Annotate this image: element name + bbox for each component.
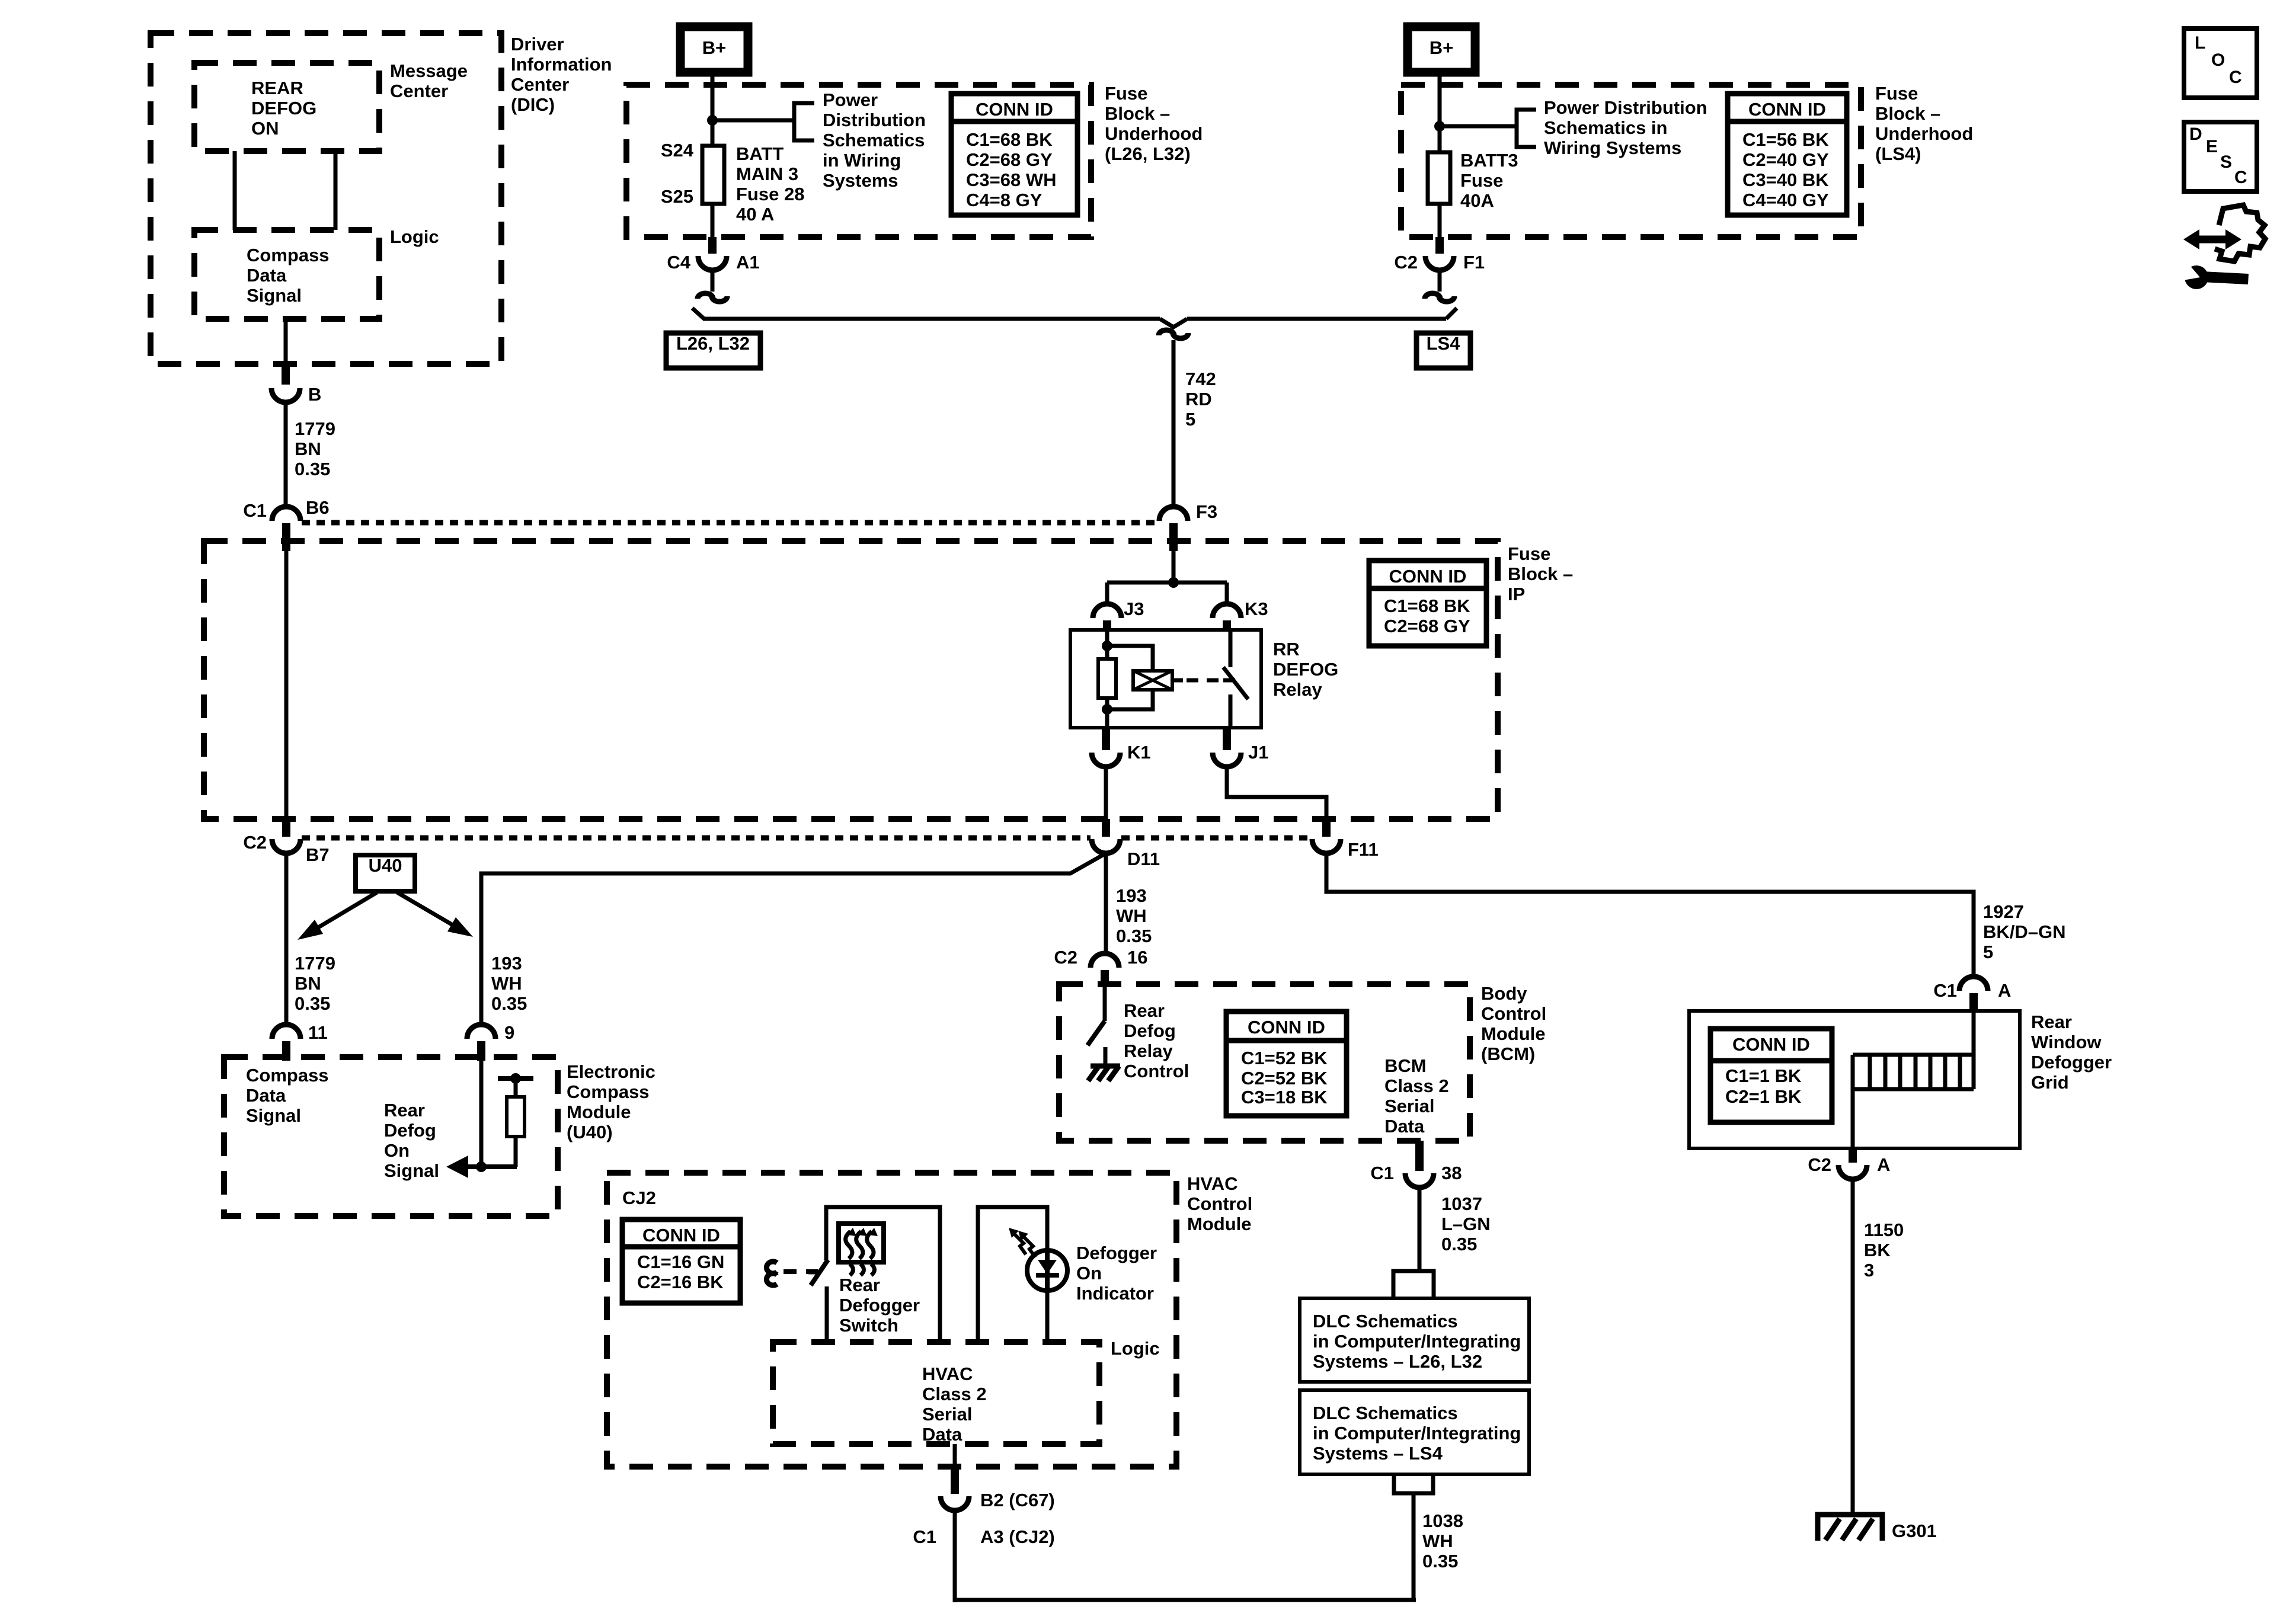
svg-text:C2=52 BK: C2=52 BK: [1241, 1068, 1328, 1089]
LED photon arrows: [1023, 1236, 1035, 1257]
wire 1037 L-GN: [1418, 1188, 1422, 1271]
svg-text:Serial: Serial: [1384, 1096, 1434, 1116]
bus V notch: [1160, 319, 1187, 327]
svg-text:C4=40 GY: C4=40 GY: [1742, 190, 1829, 210]
junction dot rear defog on signal: [476, 1161, 487, 1172]
wire 1038 WH bottom run: [955, 1598, 1416, 1602]
connector pin B: [282, 365, 290, 385]
svg-text:C2=40 GY: C2=40 GY: [1742, 149, 1829, 170]
ground G301: [1818, 1515, 1882, 1541]
svg-text:Block –: Block –: [1105, 103, 1170, 124]
fuse block underhood box (L26,L32): [626, 85, 1091, 237]
svg-text:Logic: Logic: [1111, 1338, 1160, 1359]
svg-text:0.35: 0.35: [295, 459, 330, 479]
wire D11 to C2/16, 193 WH: [1104, 853, 1108, 955]
svg-text:B6: B6: [306, 497, 330, 518]
svg-text:40 A: 40 A: [736, 204, 774, 225]
wire drop to K3: [1225, 582, 1229, 606]
svg-text:C1=16 GN: C1=16 GN: [637, 1251, 724, 1272]
svg-text:38: 38: [1441, 1163, 1462, 1183]
bracket power distribution (right): [1517, 110, 1536, 147]
svg-text:5: 5: [1983, 942, 1993, 962]
svg-text:Block –: Block –: [1508, 564, 1573, 584]
svg-text:BN: BN: [295, 973, 321, 994]
svg-text:Indicator: Indicator: [1076, 1283, 1154, 1304]
service icon outline: [2215, 205, 2265, 261]
svg-text:Rear: Rear: [839, 1275, 880, 1295]
connector C2 16: [1091, 953, 1119, 968]
svg-text:Compass: Compass: [246, 1065, 329, 1086]
svg-text:0.35: 0.35: [1116, 926, 1152, 946]
connector C1 A (grid): [1959, 977, 1988, 991]
wire 1038 WH down: [1412, 1493, 1416, 1600]
junction dot coil bottom: [1102, 704, 1112, 715]
svg-text:Defog: Defog: [1124, 1020, 1176, 1041]
svg-text:Switch: Switch: [839, 1315, 898, 1336]
logic box (DIC): [194, 230, 379, 319]
connector J1: [1223, 728, 1231, 750]
svg-text:in Computer/Integrating: in Computer/Integrating: [1313, 1331, 1521, 1352]
svg-text:Underhood: Underhood: [1105, 123, 1203, 144]
junction dot (right B+): [1434, 121, 1445, 132]
svg-text:Schematics: Schematics: [823, 130, 925, 151]
svg-text:C3=40 BK: C3=40 BK: [1742, 169, 1829, 190]
svg-text:C1=68 BK: C1=68 BK: [1384, 596, 1470, 616]
svg-text:11: 11: [308, 1022, 328, 1043]
wire fuse to C2 (right): [1438, 204, 1442, 238]
CONN ID table (fuse block underhood L26,L32): [951, 94, 1077, 215]
svg-text:Electronic: Electronic: [567, 1061, 655, 1082]
heated rear window icon box: [839, 1224, 884, 1262]
svg-text:Power: Power: [823, 89, 878, 110]
svg-text:Serial: Serial: [922, 1404, 972, 1425]
svg-text:Data: Data: [246, 1085, 286, 1106]
svg-text:C2: C2: [1394, 252, 1418, 273]
CONN ID table (fuse block underhood LS4): [1728, 94, 1847, 215]
svg-text:1037: 1037: [1441, 1193, 1482, 1214]
service icon arrow: [2195, 236, 2230, 244]
svg-text:O: O: [2211, 50, 2225, 70]
svg-text:K1: K1: [1127, 742, 1151, 763]
svg-text:Data: Data: [1384, 1116, 1425, 1137]
svg-text:742: 742: [1185, 369, 1216, 389]
svg-text:Rear: Rear: [384, 1100, 425, 1121]
svg-text:DLC Schematics: DLC Schematics: [1313, 1403, 1458, 1423]
ground internal BCM: [1091, 1064, 1120, 1069]
svg-text:C2: C2: [243, 832, 267, 853]
svg-text:S: S: [2220, 152, 2232, 172]
svg-text:Message: Message: [390, 60, 468, 81]
svg-text:193: 193: [1116, 885, 1147, 906]
svg-text:Rear: Rear: [1124, 1000, 1165, 1021]
wire rear defog on signal: [461, 1164, 517, 1169]
relay actuator dashed link: [1172, 678, 1183, 683]
svg-text:F1: F1: [1463, 252, 1485, 273]
svg-text:Systems – L26, L32: Systems – L26, L32: [1313, 1351, 1482, 1372]
svg-text:Logic: Logic: [390, 226, 439, 247]
svg-text:C1: C1: [1933, 980, 1957, 1001]
svg-text:0.35: 0.35: [1441, 1234, 1477, 1254]
wire relay control internal: [1103, 984, 1107, 1021]
svg-text:BATT3: BATT3: [1460, 150, 1518, 171]
svg-text:CONN ID: CONN ID: [1748, 99, 1826, 120]
svg-text:Distribution: Distribution: [823, 110, 926, 130]
svg-text:D: D: [2189, 124, 2202, 144]
svg-text:(U40): (U40): [567, 1122, 613, 1142]
svg-text:REAR: REAR: [251, 78, 303, 98]
bus wire V to right: [1187, 317, 1446, 321]
power symbol B+ (left): [680, 27, 748, 72]
svg-text:G301: G301: [1892, 1521, 1937, 1541]
wire coil link top: [1107, 646, 1153, 672]
svg-text:Module: Module: [567, 1102, 631, 1122]
svg-text:C2=1 BK: C2=1 BK: [1725, 1086, 1802, 1107]
connector C1 B6: [272, 507, 300, 521]
svg-text:D11: D11: [1127, 849, 1160, 869]
power symbol B+ (right): [1408, 27, 1475, 72]
reference box DLC Schematics LS4: [1300, 1390, 1529, 1474]
wire fuse to C4: [711, 204, 715, 238]
rear window defogger grid box: [1689, 1011, 2020, 1148]
svg-text:LS4: LS4: [1427, 333, 1461, 354]
CONN ID table (BCM): [1226, 1012, 1347, 1116]
svg-text:F11: F11: [1348, 839, 1379, 860]
svg-text:0.35: 0.35: [1422, 1551, 1458, 1571]
wire B6 to B7 inside IP block: [284, 536, 289, 821]
svg-text:CJ2: CJ2: [622, 1188, 656, 1208]
svg-text:Underhood: Underhood: [1875, 123, 1973, 144]
wire B7 to pin 11, 1779 BN: [284, 853, 289, 1026]
HVAC control module box: [607, 1173, 1176, 1467]
svg-text:On: On: [384, 1140, 410, 1161]
svg-text:CONN ID: CONN ID: [976, 99, 1053, 120]
connector F11: [1322, 819, 1331, 837]
connector pin 9: [467, 1025, 495, 1039]
logic box (HVAC): [773, 1342, 1099, 1444]
svg-text:B2 (C67): B2 (C67): [980, 1490, 1055, 1510]
switch blade rear defog relay control: [1088, 1021, 1105, 1045]
svg-text:C1=68 BK: C1=68 BK: [966, 129, 1053, 150]
svg-text:A: A: [1877, 1154, 1890, 1175]
svg-text:C1: C1: [1370, 1163, 1394, 1183]
svg-text:B7: B7: [306, 844, 330, 865]
svg-text:C3=18 BK: C3=18 BK: [1241, 1087, 1328, 1108]
svg-text:in Computer/Integrating: in Computer/Integrating: [1313, 1423, 1521, 1443]
body control module box: [1059, 984, 1470, 1141]
wire 1927 BK/D-GN: [1326, 853, 1974, 978]
svg-text:Fuse: Fuse: [1105, 83, 1147, 104]
wire bracket into DLC L26,L32: [1393, 1271, 1434, 1298]
svg-text:Body: Body: [1481, 983, 1527, 1004]
Driver Information Center (DIC) box: [151, 33, 501, 364]
svg-text:RR: RR: [1273, 639, 1300, 660]
svg-text:C3=68 WH: C3=68 WH: [966, 169, 1056, 190]
fuse BATT3 Fuse 40A: [1428, 152, 1450, 204]
svg-text:Fuse: Fuse: [1460, 170, 1503, 191]
svg-text:U40: U40: [369, 855, 402, 876]
svg-text:BATT: BATT: [736, 143, 784, 164]
relay coil resistor: [1098, 659, 1116, 698]
svg-text:J3: J3: [1124, 598, 1144, 619]
wire indicator lower: [1045, 1291, 1050, 1342]
svg-text:Compass: Compass: [247, 245, 330, 265]
junction dot internal bar: [510, 1073, 521, 1084]
svg-text:Class 2: Class 2: [922, 1384, 987, 1404]
service icon wrench: [2202, 271, 2249, 284]
svg-text:S24: S24: [661, 140, 694, 161]
svg-text:Compass: Compass: [567, 1081, 650, 1102]
svg-text:BCM: BCM: [1384, 1055, 1427, 1076]
svg-text:Center: Center: [390, 81, 448, 101]
svg-text:in Wiring: in Wiring: [823, 150, 901, 171]
CONN ID table (HVAC): [622, 1219, 740, 1303]
svg-text:193: 193: [491, 953, 522, 974]
dotted connector line B6-F3: [302, 520, 1158, 526]
svg-text:Power Distribution: Power Distribution: [1544, 97, 1707, 118]
svg-text:Rear: Rear: [2031, 1012, 2072, 1032]
svg-text:(LS4): (LS4): [1875, 143, 1921, 164]
svg-text:F3: F3: [1196, 501, 1217, 522]
connector D11: [1102, 819, 1110, 837]
svg-text:C2=68 GY: C2=68 GY: [966, 149, 1053, 170]
wire F3 to relay feed: [1172, 551, 1176, 582]
relay winding box: [1133, 671, 1172, 690]
wire coil link bottom: [1107, 689, 1153, 709]
svg-text:Control: Control: [1187, 1193, 1252, 1214]
svg-text:0.35: 0.35: [295, 993, 330, 1014]
svg-text:Block –: Block –: [1875, 103, 1940, 124]
svg-text:C2=68 GY: C2=68 GY: [1384, 616, 1470, 636]
relay switch fixed contact top: [1229, 630, 1233, 667]
connector J3: [1093, 604, 1121, 618]
wire logic to pin B: [284, 319, 288, 365]
wire drop to J3: [1105, 582, 1109, 606]
dotted connector line D11-F11: [1121, 836, 1310, 841]
svg-text:3: 3: [1864, 1260, 1874, 1281]
svg-text:(BCM): (BCM): [1481, 1044, 1535, 1064]
wire F1 to splice: [1438, 270, 1442, 292]
connector B2/A3: [951, 1468, 959, 1494]
svg-text:BN: BN: [295, 438, 321, 459]
svg-text:CONN ID: CONN ID: [1389, 566, 1467, 587]
wire grid feed internal: [1972, 1011, 1976, 1055]
arrow U40 right: [397, 892, 458, 928]
dashed wire to switch: [784, 1269, 818, 1274]
svg-text:Class 2: Class 2: [1384, 1076, 1449, 1096]
wire A1 to splice: [711, 270, 715, 292]
svg-text:Center: Center: [511, 74, 569, 95]
bus wire left to V: [703, 317, 1160, 321]
wire pin 9 internal: [479, 1061, 484, 1167]
svg-text:Systems: Systems: [823, 170, 898, 191]
svg-text:A1: A1: [736, 252, 760, 273]
svg-text:Relay: Relay: [1124, 1041, 1173, 1061]
reference box DLC Schematics L26,L32: [1300, 1298, 1529, 1382]
svg-text:1779: 1779: [295, 418, 335, 439]
svg-text:Relay: Relay: [1273, 679, 1322, 700]
svg-text:Wiring Systems: Wiring Systems: [1544, 137, 1681, 158]
svg-text:B: B: [308, 384, 321, 405]
svg-text:C2: C2: [1808, 1154, 1831, 1175]
svg-text:B+: B+: [1430, 37, 1454, 58]
wire J1 to F11: [1227, 767, 1326, 820]
Message Center box: [194, 63, 379, 151]
svg-text:Signal: Signal: [246, 1105, 301, 1126]
svg-text:C4=8 GY: C4=8 GY: [966, 190, 1043, 210]
wire B+ to fuse (right): [1438, 72, 1442, 152]
CONN ID table (fuse block IP): [1369, 561, 1486, 646]
svg-text:Control: Control: [1481, 1003, 1546, 1024]
relay switch fixed contact bottom: [1229, 694, 1233, 728]
svg-text:Control: Control: [1124, 1061, 1189, 1081]
wire 1150 BK: [1851, 1179, 1855, 1514]
svg-text:RD: RD: [1185, 389, 1212, 409]
svg-text:C4: C4: [667, 252, 690, 273]
svg-text:1150: 1150: [1864, 1219, 1904, 1240]
wire bus left tick: [692, 308, 704, 319]
relay coil wire: [1105, 630, 1109, 728]
svg-text:C: C: [2229, 68, 2242, 87]
inline connector half (switch): [766, 1262, 777, 1273]
svg-text:HVAC: HVAC: [1187, 1173, 1238, 1194]
fuse block underhood box (LS4): [1401, 85, 1861, 237]
inline connector break (right): [1425, 293, 1440, 299]
svg-text:MAIN 3: MAIN 3: [736, 164, 798, 184]
svg-text:(L26, L32): (L26, L32): [1105, 143, 1191, 164]
wire switch lower contact: [825, 1286, 829, 1342]
svg-text:CONN ID: CONN ID: [642, 1225, 720, 1246]
dotted connector line B7-D11: [302, 836, 1091, 841]
svg-text:Data: Data: [922, 1424, 962, 1445]
connector C2 A (grid): [1849, 1148, 1857, 1163]
svg-text:16: 16: [1127, 947, 1147, 968]
DESC legend box: [2184, 122, 2257, 191]
svg-text:BK: BK: [1864, 1240, 1891, 1260]
wire bus right tick: [1446, 308, 1457, 319]
svg-text:WH: WH: [491, 973, 522, 994]
heater icon waves: [846, 1231, 852, 1259]
wire logic to B2: [953, 1444, 957, 1468]
svg-text:Grid: Grid: [2031, 1072, 2069, 1093]
svg-text:Module: Module: [1481, 1023, 1546, 1044]
svg-text:C: C: [2234, 168, 2247, 187]
svg-text:Window: Window: [2031, 1032, 2102, 1052]
svg-text:HVAC: HVAC: [922, 1363, 973, 1384]
svg-text:Fuse: Fuse: [1508, 543, 1550, 564]
svg-text:A: A: [1998, 980, 2011, 1001]
svg-text:Schematics in: Schematics in: [1544, 117, 1667, 138]
svg-text:Defogger: Defogger: [839, 1295, 920, 1315]
junction dot (left B+): [707, 115, 718, 126]
wire message-to-logic left: [233, 151, 237, 230]
arrow U40 left: [312, 892, 377, 931]
svg-text:C1: C1: [913, 1526, 936, 1547]
relay switch blade: [1223, 667, 1248, 699]
connector K3: [1213, 604, 1241, 618]
svg-text:Signal: Signal: [384, 1160, 439, 1181]
net tag LS4: [1416, 333, 1470, 368]
svg-text:Systems – LS4: Systems – LS4: [1313, 1443, 1443, 1464]
inline connector break (left): [698, 293, 713, 299]
svg-text:C1=56 BK: C1=56 BK: [1742, 129, 1829, 150]
connector F3: [1159, 507, 1188, 521]
LOC legend box: [2184, 28, 2257, 98]
wire K1 to D11: [1104, 767, 1108, 820]
svg-text:L–GN: L–GN: [1441, 1214, 1491, 1234]
svg-text:C2=16 BK: C2=16 BK: [637, 1272, 724, 1292]
resistor U40 pull-up: [514, 1081, 518, 1097]
svg-text:Defog: Defog: [384, 1120, 436, 1141]
svg-text:K3: K3: [1245, 598, 1268, 619]
junction dot relay feed: [1168, 577, 1179, 588]
svg-text:ON: ON: [251, 118, 279, 139]
svg-text:1927: 1927: [1983, 901, 2024, 922]
wire to power distribution bracket (right): [1440, 124, 1515, 129]
connector C2 B7: [282, 819, 290, 837]
svg-text:E: E: [2206, 137, 2218, 156]
svg-text:(DIC): (DIC): [511, 94, 555, 115]
net tag U40: [356, 855, 415, 891]
connector pin 11: [272, 1025, 300, 1039]
svg-text:IP: IP: [1508, 584, 1525, 604]
internal bar U40: [498, 1076, 533, 1081]
svg-text:C2: C2: [1054, 947, 1077, 968]
svg-text:C1=52 BK: C1=52 BK: [1241, 1048, 1328, 1068]
relay RR DEFOG box: [1070, 630, 1261, 728]
junction dot coil top: [1102, 641, 1112, 651]
svg-text:A3 (CJ2): A3 (CJ2): [980, 1526, 1055, 1547]
wire D11 branch to pin 9, 193 WH: [481, 853, 1106, 1026]
svg-text:C1=1 BK: C1=1 BK: [1725, 1065, 1802, 1086]
svg-text:Defogger: Defogger: [2031, 1052, 2112, 1073]
wire indicator loop: [978, 1207, 1047, 1342]
fuse block IP box: [204, 541, 1498, 819]
connector C4 A1: [708, 237, 717, 254]
connector C1 38: [1415, 1141, 1424, 1171]
wire B to B6, 1779 BN: [284, 402, 288, 508]
bracket power distribution (left): [794, 103, 814, 140]
svg-text:Module: Module: [1187, 1214, 1252, 1234]
svg-text:CONN ID: CONN ID: [1732, 1034, 1810, 1055]
switch blade rear defogger switch: [811, 1260, 828, 1285]
wire relay feed horizontal: [1107, 581, 1227, 585]
defogger grid element: [1853, 1053, 1974, 1057]
svg-text:S25: S25: [661, 186, 693, 207]
wire bracket below DLC LS4: [1394, 1474, 1433, 1493]
connector K1: [1102, 728, 1110, 750]
wire switch loop: [826, 1207, 940, 1342]
svg-text:C1: C1: [243, 500, 267, 521]
svg-text:CONN ID: CONN ID: [1248, 1017, 1325, 1038]
svg-text:DEFOG: DEFOG: [1273, 659, 1338, 680]
LED defogger on indicator: [1027, 1250, 1067, 1291]
svg-text:1038: 1038: [1422, 1510, 1463, 1531]
svg-text:Signal: Signal: [247, 285, 302, 306]
inline connector break (742 RD): [1159, 330, 1174, 335]
svg-text:B+: B+: [702, 37, 727, 58]
svg-text:WH: WH: [1116, 905, 1147, 926]
wire B+ to fuse: [711, 72, 715, 146]
wire to internal ground: [1104, 1047, 1108, 1067]
CONN ID table (grid): [1710, 1029, 1832, 1122]
svg-text:1779: 1779: [295, 953, 335, 974]
svg-text:Defogger: Defogger: [1076, 1243, 1157, 1263]
svg-text:Driver: Driver: [511, 34, 564, 55]
fuse BATT MAIN 3 Fuse 28 40 A: [702, 146, 724, 204]
svg-text:Fuse: Fuse: [1875, 83, 1918, 104]
svg-text:WH: WH: [1422, 1531, 1453, 1551]
electronic compass module box: [224, 1057, 558, 1216]
